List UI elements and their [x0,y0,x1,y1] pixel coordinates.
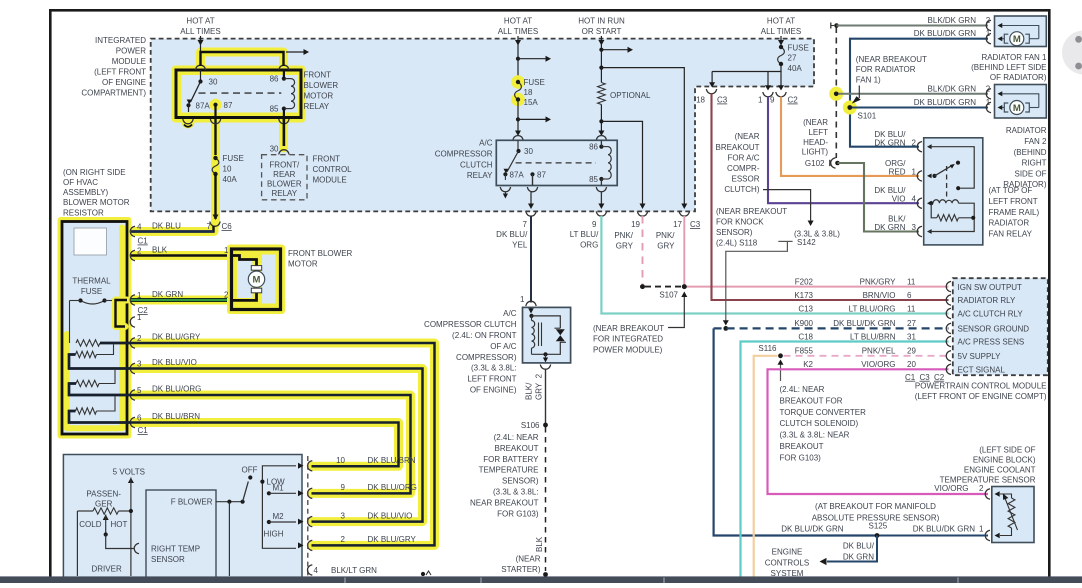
wire to engine controls system [827,536,877,562]
svg-text:BLOWER MOTOR: BLOWER MOTOR [63,198,130,207]
svg-text:OF RADIATOR): OF RADIATOR) [990,73,1047,82]
svg-text:LIGHT): LIGHT) [802,148,829,157]
svg-text:29: 29 [907,347,916,356]
svg-text:VIO/ORG: VIO/ORG [934,484,968,493]
module bottom connector pins 7 9 19 17 C3 [526,211,536,216]
motor internal wiring [233,256,257,268]
integrated power module outline (dashed region with fill) [151,39,814,212]
svg-text:FAN 1): FAN 1) [856,76,881,85]
relay: a/c compressor clutch relay box [496,140,617,185]
svg-text:C18: C18 [798,332,813,341]
svg-text:10: 10 [223,165,232,174]
relay K: front blower motor relay (highlighted box) [172,66,306,123]
svg-text:LEFT: LEFT [808,128,828,137]
svg-text:COLD: COLD [79,520,101,529]
svg-text:SENSOR): SENSOR) [716,228,753,237]
svg-text:4: 4 [314,566,319,575]
svg-text:ALL TIMES: ALL TIMES [180,27,220,36]
highlighted wire resistor pin2 BLK to motor [131,251,232,260]
svg-text:1: 1 [520,295,525,304]
svg-text:9: 9 [592,220,597,229]
svg-text:HEAD-: HEAD- [803,138,828,147]
exit bump + stub under pin 87A [183,119,193,124]
svg-text:9: 9 [770,96,775,105]
svg-text:F202: F202 [795,277,814,286]
svg-text:31: 31 [907,332,916,341]
gray leader S118/S142 to K900 splice [778,240,792,242]
svg-text:(NEAR: (NEAR [516,555,541,564]
wire: DK BLU/DK GRN fan2 from S101 [850,106,988,108]
resistor R4 [76,408,97,414]
svg-text:C3: C3 [717,96,728,105]
svg-text:MODULE: MODULE [112,57,146,66]
svg-text:LEFT FRONT: LEFT FRONT [989,197,1038,206]
svg-text:(LEFT FRONT OF ENGINE COMPT): (LEFT FRONT OF ENGINE COMPT) [915,392,1047,401]
wire: LT BLU/ORG pin9 to PCM C13 [601,216,948,314]
svg-text:10: 10 [336,456,345,465]
svg-text:1: 1 [912,167,917,176]
svg-text:5: 5 [137,386,142,395]
highlighted wire relay 85 down to front/rear blower relay [279,118,288,148]
highlighted wire core: feed rail [201,52,284,66]
svg-text:A/C: A/C [503,309,517,318]
svg-text:HOT AT: HOT AT [504,17,532,26]
svg-text:HOT AT: HOT AT [186,17,214,26]
thin links between resistor stages [97,345,114,355]
S101 splices (highlighted) [829,87,843,101]
svg-text:ENGINE BLOCK): ENGINE BLOCK) [973,455,1036,464]
svg-text:F855: F855 [795,347,814,356]
svg-text:FUSE: FUSE [81,287,102,296]
wire: PNK/GRY pin17 to S107 [683,216,685,284]
svg-text:POWERTRAIN CONTROL MODULE: POWERTRAIN CONTROL MODULE [915,382,1047,391]
feed rail to connectors 18 / 1 / 9 [712,64,781,72]
blower switch module box [63,455,302,582]
svg-text:SENSOR GROUND: SENSOR GROUND [958,325,1030,334]
svg-text:THERMAL: THERMAL [72,277,111,286]
svg-text:M: M [1013,103,1021,114]
svg-text:ORG: ORG [580,240,598,249]
relay internal: pin 87A [186,103,190,107]
svg-text:POWER MODULE): POWER MODULE) [593,345,663,354]
svg-text:CLUTCH SOLENOID): CLUTCH SOLENOID) [780,419,859,428]
optional resistor [598,83,606,105]
svg-text:BREAKOUT: BREAKOUT [494,444,538,453]
svg-text:27: 27 [907,319,916,328]
svg-text:COMPRESSOR: COMPRESSOR [435,149,493,158]
wire: BLK/DK GRN fan2 [836,93,988,95]
svg-text:2: 2 [137,246,142,255]
svg-text:OFF: OFF [242,466,258,475]
svg-text:87A: 87A [196,101,211,110]
pin 4 BLK/LT GRN row [308,565,313,575]
svg-text:M: M [253,275,261,286]
svg-text:S142: S142 [797,238,816,247]
resistor R1 [76,340,100,346]
ECT sensor box [992,487,1034,543]
svg-text:M1: M1 [273,484,285,493]
clutch internal: coil and diode [529,314,533,318]
svg-text:S106: S106 [521,421,540,430]
svg-text:DK GRN: DK GRN [843,553,874,562]
fuse 27 40A [778,47,785,64]
off-page arrow right of feed rail [286,51,305,53]
branch to pin 17 [599,66,603,70]
svg-text:VIO: VIO [892,195,906,204]
svg-text:COMPR-: COMPR- [727,164,760,173]
svg-text:7: 7 [207,222,212,231]
fuse 18 15A (highlighted ends) [511,75,525,89]
rotated wire label BLK/GRY 2 [525,382,534,400]
svg-text:FRONT BLOWER: FRONT BLOWER [288,249,353,258]
svg-text:OF HVAC: OF HVAC [63,178,98,187]
svg-text:A/C PRESS SENS: A/C PRESS SENS [958,338,1025,347]
svg-text:27: 27 [788,54,797,63]
relay internal: pin 30 and switch blade [200,70,202,80]
svg-text:DK BLU/VIO: DK BLU/VIO [368,511,413,520]
svg-text:VIO/ORG: VIO/ORG [861,360,895,369]
highlighted tap wires (cores) inside resistor [100,342,131,344]
a/c compressor clutch box [526,301,536,306]
svg-text:19: 19 [631,220,640,229]
switch position rail [262,466,296,549]
svg-text:M2: M2 [273,512,285,521]
svg-text:MODULE: MODULE [313,176,347,185]
svg-text:K2: K2 [803,360,813,369]
svg-text:C3: C3 [920,373,931,382]
svg-text:RELAY: RELAY [271,189,297,198]
svg-text:K173: K173 [794,291,813,300]
f blower wire to switch [216,501,243,503]
front/rear blower relay (dashed box) [283,118,285,147]
arrows + connector cups on switch pins [298,463,304,469]
svg-text:11: 11 [907,277,916,286]
svg-text:DK BLU/DK GRN: DK BLU/DK GRN [833,319,895,328]
connector C6 [210,222,220,227]
svg-text:2: 2 [137,334,142,343]
svg-text:4: 4 [137,222,142,231]
svg-text:IGN SW OUTPUT: IGN SW OUTPUT [958,283,1023,292]
svg-text:FRAME RAIL): FRAME RAIL) [989,208,1040,217]
svg-text:ALL TIMES: ALL TIMES [498,27,538,36]
svg-text:FRONT: FRONT [304,71,332,80]
radiator fan 1 motor box [995,16,1047,47]
svg-text:FUSE: FUSE [524,78,545,87]
svg-text:F BLOWER: F BLOWER [171,498,213,507]
svg-text:BLK/DK GRN: BLK/DK GRN [928,16,977,25]
wire: BLK/DK GRN fan relay pin3 to G102 [838,163,920,232]
svg-text:PNK/YEL: PNK/YEL [862,347,896,356]
svg-text:ECT SIGNAL: ECT SIGNAL [958,366,1006,375]
svg-text:C2: C2 [934,373,945,382]
svg-text:30: 30 [270,145,279,154]
svg-text:HOT AT: HOT AT [767,17,795,26]
svg-text:OF ENGINE: OF ENGINE [102,78,146,87]
right scroll button [1062,31,1082,75]
svg-text:RADIATOR: RADIATOR [1006,126,1047,135]
svg-text:17: 17 [673,220,682,229]
wire cores: four resistor outputs [100,343,435,545]
svg-text:(NEAR: (NEAR [735,132,760,141]
relay internal: pin 87 (highlighted) [210,99,222,111]
svg-text:DK BLU/DK GRN: DK BLU/DK GRN [781,525,843,534]
svg-text:FUSE: FUSE [788,44,809,53]
a/c relay internal: pin 87 [530,172,534,176]
svg-text:FUSE: FUSE [223,154,244,163]
highlighted stub under relay pin 87A [182,116,195,129]
leader from clutch text to s142 [763,190,811,221]
svg-text:BLK: BLK [535,536,544,552]
svg-text:GER: GER [95,500,113,509]
svg-text:RELAY: RELAY [304,102,330,111]
svg-text:S101: S101 [858,111,877,120]
svg-text:(NEAR BREAKOUT: (NEAR BREAKOUT [856,55,927,64]
svg-text:BRN/VIO: BRN/VIO [863,291,896,300]
wire: PNK/YEL F855 [754,356,778,578]
wire: DK BLU/VIO (1) to radiator fan relay pin4 [768,97,919,204]
highlighted wire relay 87 to fuse 10 to C6 [211,118,220,224]
svg-text:FOR G103): FOR G103) [780,453,822,462]
svg-text:CLUTCH: CLUTCH [460,160,493,169]
svg-text:20: 20 [907,360,916,369]
bottom task bar [0,576,1082,583]
highlighted wire DK BLU/ORG resistor to switch pin9 [69,384,411,494]
svg-text:(2.4L: NEAR: (2.4L: NEAR [780,385,825,394]
svg-text:RADIATOR FAN 1: RADIATOR FAN 1 [981,53,1047,62]
highlighted wire DK BLU/BRN resistor to switch pin10 [69,411,399,466]
svg-text:40A: 40A [788,64,803,73]
svg-text:ALL TIMES: ALL TIMES [761,27,801,36]
svg-text:ASSEMBLY): ASSEMBLY) [63,188,109,197]
fan relay internal: actuator dashed [946,166,948,198]
svg-text:85: 85 [270,105,279,114]
svg-text:PASSEN-: PASSEN- [86,490,121,499]
svg-text:87: 87 [224,101,233,110]
svg-text:2: 2 [224,291,229,300]
fuse 10 40A (highlighted) [212,158,219,174]
svg-text:(3.3L & 3.8L:: (3.3L & 3.8L: [493,488,539,497]
svg-text:DK GRN: DK GRN [874,138,905,147]
svg-text:DK BLU/ORG: DK BLU/ORG [368,483,417,492]
svg-text:HOT IN RUN: HOT IN RUN [578,17,625,26]
svg-text:DK BLU/DK GRN: DK BLU/DK GRN [914,98,976,107]
svg-text:DK BLU/GRY: DK BLU/GRY [368,535,417,544]
svg-text:2: 2 [979,484,984,493]
svg-text:RADIATOR: RADIATOR [989,219,1030,228]
svg-text:C1: C1 [138,426,149,435]
front blower motor (highlighted box) [227,245,285,315]
svg-text:30: 30 [209,78,218,87]
svg-text:5 VOLTS: 5 VOLTS [113,468,145,477]
svg-text:6: 6 [137,413,142,422]
a/c relay internal: dashed link [516,162,596,164]
svg-text:C1: C1 [138,237,149,246]
svg-text:FRONT: FRONT [313,155,341,164]
svg-text:GRY: GRY [616,241,634,250]
wire: PNK/GRY pin19 dashed to S107 [642,216,644,284]
svg-text:(LEFT FRONT: (LEFT FRONT [94,68,146,77]
wire: BRN (18) to PCM K173 [712,94,949,301]
svg-text:BREAKOUT: BREAKOUT [715,143,759,152]
wire: VIO/ORG K2 to ECT sensor [768,369,989,494]
svg-text:86: 86 [589,143,598,152]
highlighted wire DK BLU/VIO resistor to switch pin3 [69,355,423,522]
wire cores: DK BLU, BLK, DK GRN [131,230,214,232]
entry bumps on relay top [195,65,205,70]
svg-text:COMPARTMENT): COMPARTMENT) [81,89,146,98]
svg-text:5V SUPPLY: 5V SUPPLY [958,352,1002,361]
svg-text:(BEHIND: (BEHIND [1014,148,1047,157]
svg-text:COMPRESSOR CLUTCH: COMPRESSOR CLUTCH [424,320,517,329]
svg-text:87: 87 [537,170,546,179]
svg-text:C1: C1 [905,373,916,382]
svg-text:(AT TOP OF: (AT TOP OF [989,186,1033,195]
svg-text:87A: 87A [510,170,525,179]
svg-text:RADIATOR RLY: RADIATOR RLY [958,296,1016,305]
svg-text:PNK/GRY: PNK/GRY [860,277,897,286]
wire: PNK/GRY S107 to PCM F202 [684,286,948,288]
svg-text:11: 11 [907,304,916,313]
svg-text:FOR INTEGRATED: FOR INTEGRATED [593,335,663,344]
svg-text:RESISTOR: RESISTOR [63,208,104,217]
svg-text:ESSOR: ESSOR [731,175,759,184]
svg-text:S125: S125 [869,522,888,531]
svg-text:BLOWER: BLOWER [304,81,339,90]
highlighted feed wire hot-at-all-times to front blower motor relay [201,52,284,66]
svg-text:(2.4L) S118: (2.4L) S118 [716,239,758,248]
svg-text:15A: 15A [524,98,539,107]
svg-text:9: 9 [341,483,346,492]
svg-text:3: 3 [912,223,917,232]
svg-text:REAR: REAR [273,170,295,179]
svg-text:G102: G102 [805,159,825,168]
svg-text:86: 86 [270,75,279,84]
svg-text:DK BLU/ORG: DK BLU/ORG [152,385,201,394]
svg-text:C3: C3 [690,220,701,229]
svg-text:6: 6 [907,291,912,300]
svg-text:DK BLU: DK BLU [152,222,181,231]
svg-text:BLK: BLK [152,246,168,255]
svg-text:S116: S116 [758,344,777,353]
svg-text:ENGINE COOLANT: ENGINE COOLANT [964,465,1036,474]
svg-text:BLOWER: BLOWER [267,180,302,189]
svg-text:SIDE OF: SIDE OF [1014,169,1046,178]
svg-text:(NEAR BREAKOUT: (NEAR BREAKOUT [716,207,787,216]
svg-text:FOR A/C: FOR A/C [727,153,759,162]
dashed BLK wire to starter ground [545,427,547,571]
svg-text:MOTOR: MOTOR [288,260,318,269]
svg-text:C2: C2 [138,306,149,315]
wiper to right temp sensor [106,535,135,549]
svg-text:ABSOLUTE PRESSURE SENSOR): ABSOLUTE PRESSURE SENSOR) [812,514,940,523]
svg-text:RELAY: RELAY [467,171,493,180]
svg-text:4: 4 [912,195,917,204]
svg-text:FRONT/: FRONT/ [269,161,300,170]
svg-text:TEMPERATURE: TEMPERATURE [479,466,539,475]
svg-text:(2.4L: ON FRONT: (2.4L: ON FRONT [452,331,517,340]
svg-text:GRY 2: GRY 2 [535,373,544,400]
svg-text:NEAR BREAKOUT: NEAR BREAKOUT [470,498,539,507]
resistor R3 [76,380,99,386]
motor symbol M [248,271,264,287]
svg-text:DK BLU/GRY: DK BLU/GRY [152,333,201,342]
svg-text:(NEAR: (NEAR [803,118,828,127]
svg-text:1: 1 [979,525,984,534]
svg-text:RIGHT: RIGHT [1022,159,1047,168]
svg-text:2: 2 [912,138,917,147]
ECT internal thermistor [1000,494,1012,498]
PCM connector rows [946,281,951,291]
svg-text:C2: C2 [788,96,799,105]
svg-text:OR START: OR START [582,27,622,36]
wire: ORG/RED (9) to radiator fan relay pin1 [781,97,919,176]
svg-text:DK BLU/BRN: DK BLU/BRN [368,456,416,465]
svg-text:PNK/: PNK/ [614,231,633,240]
svg-text:K900: K900 [794,319,813,328]
svg-text:BLK/LT GRN: BLK/LT GRN [331,566,377,575]
svg-text:18: 18 [524,88,533,97]
svg-text:YEL: YEL [512,240,528,249]
fan relay internal: switch blade [932,174,936,178]
svg-text:40A: 40A [223,175,238,184]
f blower inner box [146,490,216,582]
svg-text:LT BLU/BRN: LT BLU/BRN [850,332,896,341]
radiator fan relay box [924,138,983,245]
blank label box inside resistor [74,228,107,255]
svg-text:FAN RELAY: FAN RELAY [989,230,1033,239]
svg-text:1: 1 [758,96,763,105]
highlighted internal tap: fuse to C2 stub [116,300,128,327]
wire: DK BLU/DK GRN fan1 to S101 to fan relay [850,39,988,147]
svg-text:PNK/: PNK/ [656,231,675,240]
svg-text:HOT: HOT [111,520,128,529]
svg-text:3: 3 [341,511,346,520]
svg-text:(BEHIND LEFT SIDE: (BEHIND LEFT SIDE [971,63,1046,72]
svg-text:A/C: A/C [479,139,493,148]
svg-text:2: 2 [341,535,346,544]
svg-text:RED: RED [889,167,906,176]
exits under a/c relay [500,187,510,192]
svg-text:3: 3 [137,359,142,368]
svg-text:BLK/DK GRN: BLK/DK GRN [928,84,977,93]
svg-text:DK BLU/: DK BLU/ [496,230,528,239]
relay internal: coil pins 86/85 [282,77,286,81]
svg-text:OPTIONAL: OPTIONAL [610,91,651,100]
radiator fan 2 motor box [995,85,1047,119]
wire to S106 [545,369,547,426]
svg-text:BREAKOUT: BREAKOUT [780,442,824,451]
wire: DK BLU/DK GRN K900 dashed to PCM [714,327,949,329]
G102 ground dashed line [835,27,837,158]
svg-text:DK BLU/BRN: DK BLU/BRN [152,412,200,421]
svg-text:(2.4L: NEAR: (2.4L: NEAR [494,433,539,442]
svg-text:(3.3L & 3.8L:: (3.3L & 3.8L: [471,364,517,373]
svg-text:FAN 2: FAN 2 [1024,137,1047,146]
a/c relay internal: pin30 + blade [517,140,519,149]
svg-text:TEMPERATURE SENSOR: TEMPERATURE SENSOR [940,475,1036,484]
connector cups 18/C3 and 1/9 C2 [706,89,716,94]
wires 87/85 below relay [214,118,216,156]
branch to pin 19 [599,119,603,123]
svg-text:(NEAR BREAKOUT: (NEAR BREAKOUT [593,324,664,333]
splice S107 [645,286,681,288]
svg-text:LT BLU/: LT BLU/ [570,230,599,239]
a/c relay internal: coil 86/85 [599,145,603,149]
svg-text:1: 1 [224,246,229,255]
M2 contact [267,520,271,524]
svg-text:FOR BATTERY: FOR BATTERY [483,455,539,464]
highlighted wire resistor pin1 DK GRN to motor [131,296,232,305]
